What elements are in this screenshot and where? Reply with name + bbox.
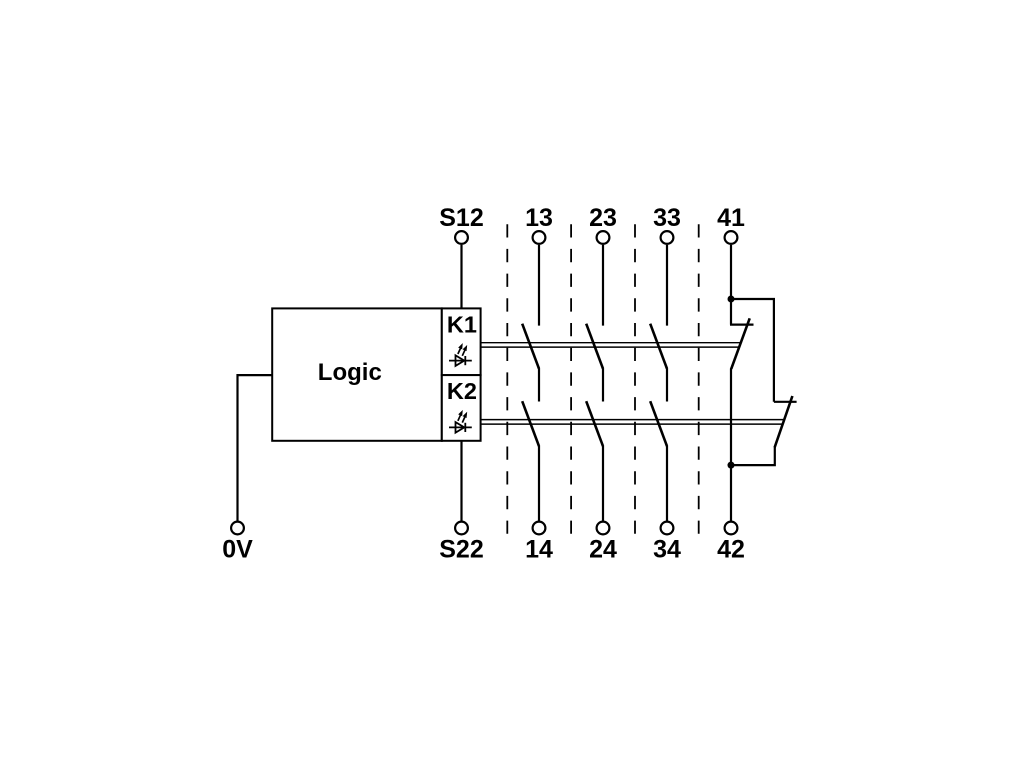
terminal circle 0V	[231, 522, 244, 535]
wire NC blade to junction B	[730, 369, 732, 466]
wire between contacts (13-14 path)	[538, 369, 540, 402]
contact blade K2 (13-14 path)	[522, 401, 539, 446]
svg-text:S22: S22	[439, 536, 483, 564]
LED indicator D2 (K2)	[449, 411, 472, 433]
terminal circle 33	[661, 231, 674, 244]
wire from 41 to junction	[730, 245, 732, 299]
mechanical linkage rail K1 (lower line)	[481, 346, 739, 348]
NC contact blade K2 (41-42 path)	[775, 396, 793, 448]
svg-text:S12: S12	[439, 204, 483, 232]
terminal circle 13	[533, 231, 546, 244]
mechanical linkage rail K2 (upper line)	[481, 419, 785, 421]
logic block U1	[272, 308, 442, 440]
wire junction B to 42	[730, 465, 732, 521]
wire between contacts (23-24 path)	[602, 369, 604, 402]
svg-text:34: 34	[653, 536, 681, 564]
terminal circle 42	[725, 522, 738, 535]
svg-text:42: 42	[717, 536, 745, 564]
relay coil box K1	[442, 308, 481, 375]
bypass wire junction A to K2 NC contact	[731, 299, 774, 402]
wire S12 to K1	[460, 245, 462, 309]
svg-text:24: 24	[589, 536, 617, 564]
contact blade K1 (33-34 path)	[650, 324, 667, 369]
contact blade K1 (13-14 path)	[522, 324, 539, 369]
wire to 24	[602, 446, 604, 522]
wire from 23	[602, 245, 604, 326]
terminal circle S12	[455, 231, 468, 244]
NC contact seat K2 (41-42 path)	[774, 401, 797, 403]
dashed separator line 2	[570, 224, 572, 534]
terminal circle 24	[597, 522, 610, 535]
dashed separator line 3	[634, 224, 636, 534]
svg-text:13: 13	[525, 204, 553, 232]
wire between contacts (33-34 path)	[666, 369, 668, 402]
svg-text:K1: K1	[447, 311, 477, 337]
terminal circle 23	[597, 231, 610, 244]
bypass wire K2 NC contact to junction B	[731, 447, 775, 465]
dashed separator line 1	[506, 224, 508, 534]
terminal circle 34	[661, 522, 674, 535]
svg-text:33: 33	[653, 204, 681, 232]
wire from 13	[538, 245, 540, 326]
mechanical linkage rail K1 (upper line)	[481, 342, 741, 344]
svg-text:14: 14	[525, 536, 553, 564]
terminal circle S22	[455, 522, 468, 535]
relay coil box K2	[442, 375, 481, 441]
contact blade K2 (33-34 path)	[650, 401, 667, 446]
contact blade K2 (23-24 path)	[586, 401, 603, 446]
dashed separator line 4	[698, 224, 700, 534]
svg-text:Logic: Logic	[318, 359, 382, 386]
terminal circle 14	[533, 522, 546, 535]
wire junction to NC seat	[730, 299, 732, 325]
wire 0V to Logic	[238, 375, 273, 521]
wire to 14	[538, 446, 540, 522]
contact blade K1 (23-24 path)	[586, 324, 603, 369]
svg-text:0V: 0V	[222, 536, 253, 564]
NC contact seat K1 (41-42 path)	[730, 324, 754, 326]
wire K2 to S22	[460, 441, 462, 522]
mechanical linkage rail K2 (lower line)	[481, 423, 783, 425]
junction node B	[728, 462, 735, 469]
svg-text:41: 41	[717, 204, 745, 232]
wire from 33	[666, 245, 668, 326]
wire to 34	[666, 446, 668, 522]
LED indicator D1 (K1)	[449, 344, 472, 366]
svg-text:23: 23	[589, 204, 617, 232]
junction node A	[728, 296, 735, 303]
NC contact blade K1 (41-42 path)	[731, 318, 750, 369]
terminal circle 41	[725, 231, 738, 244]
svg-text:K2: K2	[447, 378, 477, 404]
